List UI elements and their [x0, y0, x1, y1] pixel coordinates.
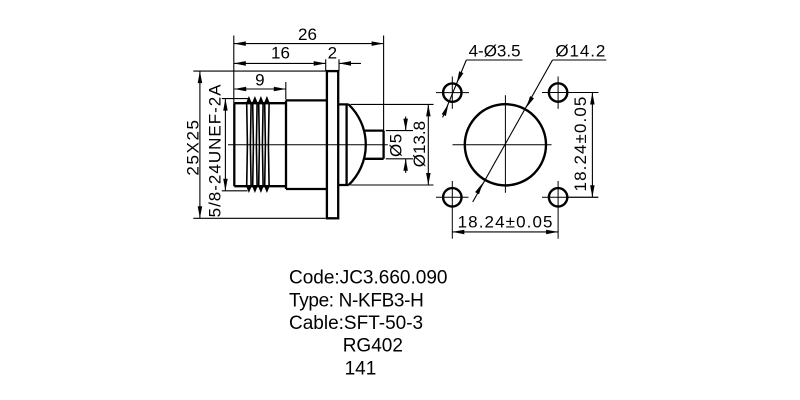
- dimension 18.24 +/- 0.05 horizontal: [452, 212, 558, 234]
- svg-text:RG402: RG402: [343, 336, 403, 357]
- svg-text:9: 9: [255, 70, 264, 89]
- dimension 9: [234, 70, 286, 91]
- node mounting flange (side view): [327, 71, 338, 218]
- svg-text:2: 2: [328, 44, 337, 63]
- wire crosshair top-right hole + extension right: [542, 92, 598, 94]
- dimension 16: [234, 44, 326, 66]
- node connector body outline (threaded section): [234, 103, 286, 186]
- wire extension line at thread runout (for dim 9): [285, 82, 287, 100]
- wire extension lines above flange (for dim 2): [325, 59, 327, 71]
- svg-text:Cable:SFT-50-3: Cable:SFT-50-3: [289, 313, 423, 334]
- wire extension lines for flange square (dim 25X25): [193, 70, 325, 72]
- svg-text:Ø13.8: Ø13.8: [410, 121, 429, 167]
- svg-text:18.24±0.05: 18.24±0.05: [571, 96, 590, 192]
- svg-text:4-Ø3.5: 4-Ø3.5: [469, 42, 521, 61]
- svg-text:Ø14.2: Ø14.2: [555, 42, 606, 61]
- wire centerline of connector side view: [228, 144, 388, 146]
- dimension 5/8-24UNEF-2A thread callout: [206, 83, 228, 217]
- wire extension lines right of right holes: [567, 92, 599, 94]
- wire crosshair bottom-left hole + extension down: [436, 196, 469, 198]
- dimension 26: [234, 25, 384, 46]
- svg-text:141: 141: [345, 358, 377, 379]
- wire extension line left (body left edge, for dims 26/16/9): [233, 36, 235, 104]
- label diameter 14.2 callout with leader: [473, 42, 607, 202]
- wire crosshair bottom-right hole + extensions: [542, 196, 598, 198]
- wire extension lines for shell diameter (dim 13.8): [351, 103, 434, 105]
- node center pin / solder bucket: [365, 131, 384, 159]
- svg-text:5/8-24UNEF-2A: 5/8-24UNEF-2A: [206, 83, 225, 217]
- dimension 25X25: [183, 71, 202, 218]
- node mounting hole top-left: [443, 83, 461, 101]
- wire extension lines for pin diameter (dim 5): [386, 130, 413, 132]
- wire extension lines at thread crests (for thread callout): [222, 98, 249, 100]
- dimension 2: [328, 44, 361, 66]
- svg-text:16: 16: [271, 44, 290, 63]
- node thread coils 5/8-24UNEF-2A: [247, 98, 269, 191]
- node central circle diameter 14.2: [465, 104, 546, 185]
- dimension 18.24 +/- 0.05 vertical: [571, 93, 595, 198]
- node dome rear shell: [338, 104, 365, 185]
- dimension diameter 13.8: [410, 104, 431, 185]
- wire centerlines of central circle: [453, 144, 552, 146]
- svg-text:25X25: 25X25: [183, 118, 202, 175]
- wire crosshair top-left hole: [436, 92, 469, 94]
- svg-text:Ø5: Ø5: [386, 133, 405, 157]
- label 4-diameter-3.5 holes callout with leader: [442, 42, 523, 118]
- label part code text block: [289, 268, 447, 380]
- node rear body section: [286, 100, 326, 189]
- svg-text:18.24±0.05: 18.24±0.05: [458, 212, 554, 231]
- wire extension line right of pin (for dim 26): [383, 36, 385, 131]
- node mounting hole bottom-right: [549, 188, 567, 206]
- svg-text:Type: N-KFB3-H: Type: N-KFB3-H: [289, 290, 423, 311]
- svg-text:26: 26: [298, 25, 317, 44]
- node mounting hole bottom-left: [443, 188, 461, 206]
- node mounting hole top-right: [549, 83, 567, 101]
- dimension diameter 5: [386, 117, 408, 173]
- svg-text:Code:JC3.660.090: Code:JC3.660.090: [289, 268, 447, 289]
